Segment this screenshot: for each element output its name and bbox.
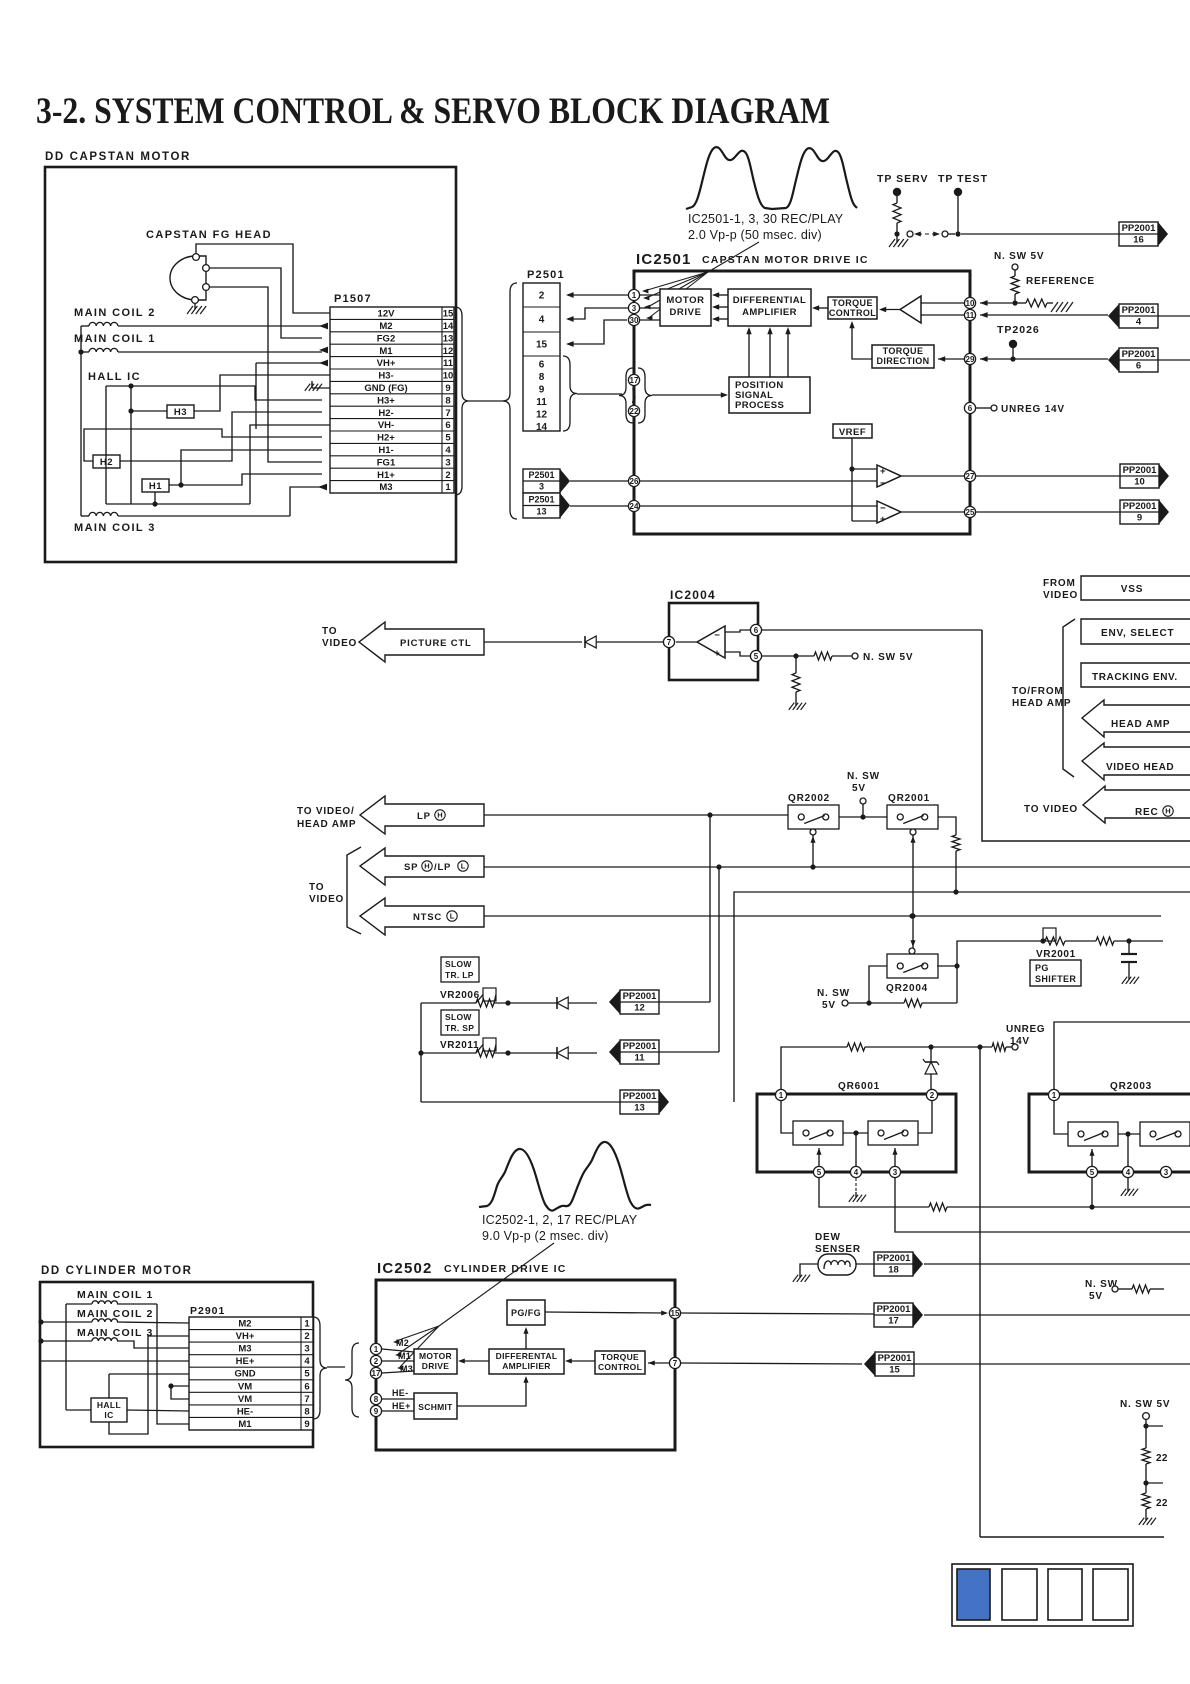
svg-text:13: 13 xyxy=(536,507,546,517)
HEAD AMP arrow stub xyxy=(1082,700,1190,737)
waveform 2 caption xyxy=(482,1213,638,1243)
MAIN COIL 1 label xyxy=(74,333,156,345)
svg-text:17: 17 xyxy=(372,1369,381,1378)
diode picture ctl xyxy=(585,636,596,648)
pin 6 IC2501 xyxy=(964,402,975,413)
pin 7 IC2502 xyxy=(648,1357,681,1368)
wire P2501-3 to pin26 xyxy=(570,480,628,482)
ground right of reference resistor xyxy=(1051,302,1073,312)
brace to/from head amp xyxy=(1063,619,1075,777)
REC arrow stub xyxy=(1083,786,1190,823)
svg-text:3-2. SYSTEM CONTROL & SERVO B: 3-2. SYSTEM CONTROL & SERVO BLOCK DIAGRA… xyxy=(36,91,830,132)
pin 5 IC2004 xyxy=(725,650,762,661)
svg-text:VR2001: VR2001 xyxy=(1036,949,1076,960)
svg-text:24: 24 xyxy=(630,502,639,511)
MAIN COIL 2 label cyl xyxy=(77,1308,154,1320)
wire pin3 net xyxy=(895,1178,1190,1232)
svg-text:H3+: H3+ xyxy=(377,395,395,406)
switch pack QR6001 body xyxy=(757,1094,956,1172)
brace right of P2901 xyxy=(313,1317,327,1419)
wire main coil 1 to M1 xyxy=(81,347,328,354)
svg-text:8: 8 xyxy=(445,395,450,406)
pin 17 IC2501 xyxy=(628,374,639,385)
svg-text:2: 2 xyxy=(304,1331,309,1342)
switch QR2003-B xyxy=(1140,1122,1190,1146)
svg-text:LP: LP xyxy=(417,811,431,822)
wire pin26 to comparator upper xyxy=(640,480,877,482)
wire comparator lower to PP2001-9 xyxy=(901,511,1120,513)
wire brace P2901 to brace IC2502 xyxy=(327,1366,345,1368)
brace right of P1507 xyxy=(455,307,469,495)
wire P2501-13 to pin24 xyxy=(570,505,628,507)
svg-text:1: 1 xyxy=(632,291,637,300)
resistor pin5 to ground xyxy=(792,656,800,700)
resistor REFERENCE xyxy=(1011,270,1095,306)
wire QR2004 right to PG shifter net xyxy=(937,941,1043,1003)
svg-text:PICTURE CTL: PICTURE CTL xyxy=(400,638,472,649)
svg-text:REC: REC xyxy=(1135,807,1159,818)
wire pin5 to N.SW 5V xyxy=(762,652,913,663)
svg-text:2: 2 xyxy=(930,1091,935,1100)
pin 17 IC2502 xyxy=(370,1367,414,1378)
PG/FG block xyxy=(507,1300,545,1325)
wire PP2001-12 up xyxy=(659,815,710,1002)
svg-text:TO: TO xyxy=(309,882,324,893)
svg-text:FG1: FG1 xyxy=(377,457,396,468)
svg-text:4: 4 xyxy=(1136,317,1142,328)
connector P2501-13 xyxy=(523,493,570,518)
svg-text:N. SW 5V: N. SW 5V xyxy=(1120,1399,1170,1410)
leader line waveform1 to pins xyxy=(642,242,759,320)
ground below pin4 QR2003 xyxy=(1121,1178,1138,1196)
N.SW 5V at QR2004 xyxy=(817,988,869,1011)
pin 11 IC2501 xyxy=(964,309,975,320)
pin 1 IC2502 xyxy=(370,1343,414,1354)
M2 M1 M3 labels xyxy=(396,1338,413,1374)
N.SW 5V divider source xyxy=(1120,1399,1170,1448)
wire diode to pin7 xyxy=(596,641,663,643)
wire PP2001-4 to pin11 xyxy=(980,312,1108,318)
svg-text:VIDEO HEAD: VIDEO HEAD xyxy=(1106,762,1174,773)
svg-text:SLOW: SLOW xyxy=(445,959,472,969)
svg-text:TO: TO xyxy=(322,626,337,637)
svg-text:SP: SP xyxy=(404,862,418,873)
wire main coil 2 to M2 xyxy=(81,323,328,330)
svg-text:CYLINDER DRIVE IC: CYLINDER DRIVE IC xyxy=(444,1263,567,1275)
connector PP2001-18 xyxy=(856,1252,1190,1276)
dashed link TP SERV to TP TEST xyxy=(907,231,955,237)
svg-text:12: 12 xyxy=(634,1003,645,1014)
main coil 2 cyl xyxy=(38,1319,189,1325)
connector PP2001-15 xyxy=(864,1352,1190,1376)
wire VR common to PP2001-13 xyxy=(418,1003,620,1102)
IC2004 op-amp xyxy=(697,626,725,659)
main coil 2 xyxy=(89,322,118,326)
svg-text:HE-: HE- xyxy=(392,1388,408,1398)
svg-text:REFERENCE: REFERENCE xyxy=(1026,276,1095,287)
motor drive block xyxy=(660,289,711,326)
VIDEO HEAD arrow stub xyxy=(1082,743,1190,780)
svg-text:3: 3 xyxy=(1164,1168,1169,1177)
capacitor PG shifter xyxy=(1121,941,1137,974)
ground below pin5 resistor xyxy=(789,700,806,710)
svg-text:H: H xyxy=(424,862,429,871)
svg-text:DD CAPSTAN MOTOR: DD CAPSTAN MOTOR xyxy=(45,151,191,163)
svg-text:VR2011: VR2011 xyxy=(440,1040,479,1051)
wire pin30 to P2501-15 xyxy=(566,320,627,347)
svg-text:TP TEST: TP TEST xyxy=(938,173,988,185)
svg-text:CAPSTAN MOTOR DRIVE IC: CAPSTAN MOTOR DRIVE IC xyxy=(702,254,869,266)
wire pins17-22 to position signal process xyxy=(652,392,728,397)
svg-text:15: 15 xyxy=(443,309,454,320)
IC2004 label xyxy=(670,588,716,602)
svg-text:H1+: H1+ xyxy=(377,470,395,481)
P2901 label xyxy=(190,1305,225,1317)
svg-text:14: 14 xyxy=(443,321,454,332)
HALL IC block xyxy=(91,1398,127,1422)
svg-text:PP2001: PP2001 xyxy=(1123,501,1158,512)
wire picture ctl to diode xyxy=(484,641,582,643)
title SYSTEM CONTROL & SERVO BLOCK DIAGRAM xyxy=(36,91,830,132)
svg-text:9: 9 xyxy=(374,1407,379,1416)
svg-text:−: − xyxy=(880,478,886,489)
svg-text:HALL: HALL xyxy=(97,1400,121,1410)
svg-text:12: 12 xyxy=(443,346,454,357)
hall element H2 xyxy=(93,455,120,468)
op-amp drive IC IC2501 body xyxy=(634,271,970,534)
ground at GND(FG) xyxy=(305,381,330,391)
svg-text:TRACKING ENV.: TRACKING ENV. xyxy=(1092,672,1178,683)
pin 1 IC2501 xyxy=(628,289,660,300)
connector PP2001-17 xyxy=(681,1303,1190,1327)
svg-text:IC2004: IC2004 xyxy=(670,588,716,602)
svg-text:VREF: VREF xyxy=(839,427,866,438)
wire VH- trunk xyxy=(250,425,330,504)
arrows position signal process to differential amplifier xyxy=(746,327,790,377)
svg-text:M3: M3 xyxy=(238,1344,251,1355)
DEW SENSER label xyxy=(815,1232,861,1255)
svg-text:5: 5 xyxy=(1090,1168,1095,1177)
svg-text:H1: H1 xyxy=(149,481,162,492)
svg-text:GND (FG): GND (FG) xyxy=(364,383,407,394)
svg-text:6: 6 xyxy=(754,626,759,635)
svg-text:CAPSTAN FG HEAD: CAPSTAN FG HEAD xyxy=(146,229,272,241)
svg-text:MAIN COIL 1: MAIN COIL 1 xyxy=(74,333,156,345)
svg-text:VIDEO: VIDEO xyxy=(322,638,357,649)
legend cell 1 highlighted xyxy=(957,1569,990,1620)
wire QR2003 pin1 net xyxy=(1054,1022,1190,1090)
ground below TP SERV xyxy=(889,236,908,247)
svg-text:IC2501: IC2501 xyxy=(636,251,692,268)
svg-text:H2+: H2+ xyxy=(377,433,395,444)
connector PP2001-9 xyxy=(1120,500,1169,524)
svg-text:HE-: HE- xyxy=(237,1406,253,1417)
wire pin2 to switch B xyxy=(918,1101,932,1133)
wire pin5 net xyxy=(819,1178,1190,1211)
svg-text:11: 11 xyxy=(634,1053,645,1064)
svg-text:P2501: P2501 xyxy=(527,269,565,281)
svg-text:DIRECTION: DIRECTION xyxy=(876,356,929,366)
svg-text:18: 18 xyxy=(888,1265,899,1276)
svg-text:+: + xyxy=(714,648,720,659)
svg-text:16: 16 xyxy=(1133,235,1144,246)
svg-text:CONTROL: CONTROL xyxy=(598,1362,642,1372)
svg-text:5V: 5V xyxy=(822,1000,836,1011)
test point TP2026 xyxy=(997,324,1040,362)
wire pins10-11 to buffer triangle xyxy=(921,303,964,315)
waveform IC2501 scope trace xyxy=(686,147,857,209)
IC2501 label xyxy=(636,251,869,268)
svg-text:VSS: VSS xyxy=(1121,584,1143,595)
torque direction block xyxy=(872,345,934,368)
wire HE+ row xyxy=(40,1360,189,1362)
svg-text:MAIN COIL 1: MAIN COIL 1 xyxy=(77,1289,154,1301)
connector PP2001-4 xyxy=(1108,304,1190,328)
arrow torque control to differential amplifier xyxy=(812,305,828,310)
ground below divider xyxy=(1139,1515,1156,1525)
svg-text:12V: 12V xyxy=(378,309,396,320)
svg-text:8: 8 xyxy=(539,372,545,383)
QR2002 bottom terminal xyxy=(810,829,816,867)
svg-text:GND: GND xyxy=(234,1369,255,1380)
svg-text:25: 25 xyxy=(966,508,975,517)
torque control block cyl xyxy=(595,1351,645,1374)
wire H2 to H2- xyxy=(120,409,339,461)
switch QR6001-A xyxy=(793,1121,843,1145)
coil star node wire xyxy=(78,326,83,516)
svg-text:22: 22 xyxy=(1156,1453,1168,1464)
svg-text:VH-: VH- xyxy=(378,420,394,431)
wire FG head pin3 to FG1 xyxy=(209,287,339,465)
CAPSTAN FG HEAD label xyxy=(146,229,272,241)
diode slow tr lp xyxy=(557,997,597,1009)
svg-text:11: 11 xyxy=(536,397,547,408)
HALL IC label xyxy=(88,371,141,383)
svg-text:TORQUE: TORQUE xyxy=(601,1352,639,1362)
TO VIDEO label modes xyxy=(309,882,344,905)
wire QR6001 top net xyxy=(781,1043,1018,1090)
pin 6 IC2004 xyxy=(725,624,762,635)
svg-text:NTSC: NTSC xyxy=(413,912,442,923)
IC2004 body xyxy=(669,603,758,680)
main coil 1 cyl xyxy=(66,1301,157,1304)
UNREG 14V source top xyxy=(1006,1024,1045,1047)
wire switch A to switch B xyxy=(843,1130,868,1135)
svg-text:+: + xyxy=(880,514,886,525)
svg-text:9: 9 xyxy=(539,385,545,396)
svg-text:QR6001: QR6001 xyxy=(838,1081,880,1092)
svg-text:DIFFERENTIAL: DIFFERENTIAL xyxy=(733,295,806,306)
pin 5 QR2003 xyxy=(1086,1149,1097,1178)
svg-text:9: 9 xyxy=(445,383,450,394)
SLOW TR.LP block xyxy=(441,957,479,982)
VR2001 label xyxy=(1036,949,1076,960)
svg-text:7: 7 xyxy=(445,408,450,419)
FROM VIDEO label xyxy=(1043,578,1078,601)
pin 4 QR6001 xyxy=(850,1133,861,1178)
svg-text:VM: VM xyxy=(238,1394,252,1405)
QR2001 bottom terminal xyxy=(910,829,916,948)
wire coil1 to M1 xyxy=(157,1304,189,1424)
svg-text:6: 6 xyxy=(539,360,545,371)
pin 10 IC2501 xyxy=(964,297,975,308)
svg-text:PP2001: PP2001 xyxy=(1123,465,1158,476)
motor drive block cyl xyxy=(414,1349,457,1374)
svg-text:17: 17 xyxy=(888,1316,899,1327)
svg-text:MAIN COIL 3: MAIN COIL 3 xyxy=(74,522,156,534)
legend frame xyxy=(952,1564,1133,1626)
svg-text:1: 1 xyxy=(374,1345,379,1354)
wire main coil 3 to M3 xyxy=(81,484,327,516)
svg-text:DRIVE: DRIVE xyxy=(669,307,701,318)
wire pin24 to comparator lower xyxy=(640,505,877,507)
svg-text:HE+: HE+ xyxy=(392,1401,411,1411)
svg-text:HE+: HE+ xyxy=(236,1356,255,1367)
wire H1 to H1- xyxy=(181,447,339,485)
switch QR2004 xyxy=(886,954,938,994)
svg-text:26: 26 xyxy=(630,477,639,486)
ground below capacitor xyxy=(1122,974,1139,984)
switch QR6001-B xyxy=(868,1121,918,1145)
wire NTSC net xyxy=(484,913,1161,918)
svg-text:6: 6 xyxy=(968,404,973,413)
svg-text:M2: M2 xyxy=(238,1318,251,1329)
svg-text:SHIFTER: SHIFTER xyxy=(1035,974,1076,984)
svg-text:IC2502-1, 2, 17 REC/PLAY: IC2502-1, 2, 17 REC/PLAY xyxy=(482,1213,638,1227)
connector P2501 xyxy=(523,283,560,433)
svg-text:IC: IC xyxy=(104,1410,113,1420)
svg-text:6: 6 xyxy=(445,420,450,431)
svg-text:IC2502: IC2502 xyxy=(377,1260,433,1277)
svg-text:H1-: H1- xyxy=(378,445,393,456)
wire pin29 to torque direction xyxy=(938,356,964,361)
wire hall bottom bus xyxy=(106,386,250,507)
svg-text:4: 4 xyxy=(304,1356,310,1367)
pin 22 IC2501 xyxy=(628,405,639,416)
switch pack QR2003 body xyxy=(1029,1094,1190,1172)
wire QR2004 left loop xyxy=(866,966,887,1006)
svg-text:+: + xyxy=(880,466,886,477)
svg-text:QR2004: QR2004 xyxy=(886,983,928,994)
svg-text:H3: H3 xyxy=(174,407,187,418)
pin 3 QR6001 xyxy=(889,1148,900,1178)
brace pair around pins 17 22 xyxy=(619,368,652,423)
comparator upper xyxy=(877,465,901,489)
PICTURE CTL arrow xyxy=(359,622,484,662)
main coil 3 xyxy=(89,512,118,516)
svg-text:30: 30 xyxy=(630,316,639,325)
svg-text:22: 22 xyxy=(630,407,639,416)
svg-text:M2: M2 xyxy=(379,321,392,332)
MAIN COIL 3 label cyl xyxy=(77,1327,154,1339)
svg-text:1: 1 xyxy=(445,482,451,493)
TRACKING ENV box stub xyxy=(1081,663,1190,687)
svg-text:17: 17 xyxy=(630,376,639,385)
svg-text:7: 7 xyxy=(667,638,672,647)
wire PP13 net horizontal xyxy=(734,892,1190,1102)
wire torque direction to torque control xyxy=(849,321,872,359)
IC2502 label xyxy=(377,1260,567,1277)
svg-text:N. SW 5V: N. SW 5V xyxy=(863,652,913,663)
DD CYLINDER MOTOR label xyxy=(41,1265,193,1277)
wire pin7 to PP2001-15 xyxy=(681,1363,862,1364)
svg-text:22: 22 xyxy=(1156,1498,1168,1509)
svg-text:P2901: P2901 xyxy=(190,1305,225,1317)
wire pin3 to P2501-4 xyxy=(566,308,628,322)
svg-text:FROM: FROM xyxy=(1043,578,1076,589)
svg-text:TO/FROM: TO/FROM xyxy=(1012,686,1064,697)
pin 1 QR6001 xyxy=(775,1089,786,1100)
connector P1507 xyxy=(330,307,454,493)
pin 5 QR6001 xyxy=(813,1148,824,1178)
svg-text:TR. LP: TR. LP xyxy=(445,970,474,980)
LP arrow xyxy=(360,796,484,834)
svg-text:IC2501-1, 3, 30 REC/PLAY: IC2501-1, 3, 30 REC/PLAY xyxy=(688,212,844,226)
wire LP net xyxy=(484,812,788,817)
svg-text:4: 4 xyxy=(1126,1168,1131,1177)
legend cell 4 xyxy=(1093,1569,1128,1620)
QR2004 top terminal xyxy=(909,948,915,954)
svg-text:1: 1 xyxy=(1052,1091,1057,1100)
squiggle between pin17 and pin22 xyxy=(633,386,636,405)
svg-text:14: 14 xyxy=(536,422,548,433)
connector P2501-3 xyxy=(523,469,570,493)
svg-text:TORQUE: TORQUE xyxy=(832,298,873,308)
svg-text:UNREG 14V: UNREG 14V xyxy=(1001,404,1065,415)
svg-text:H3-: H3- xyxy=(378,371,393,382)
zener diode QR6001 xyxy=(923,1047,939,1090)
connector PP2001-13 xyxy=(620,1090,669,1114)
svg-text:VH+: VH+ xyxy=(377,358,396,369)
TO VIDEO label picture ctl xyxy=(322,626,357,649)
ENV SELECT box stub xyxy=(1081,619,1190,644)
svg-text:UNREG: UNREG xyxy=(1006,1024,1045,1035)
wire FG head pin1 to 12V xyxy=(196,244,330,313)
svg-text:−: − xyxy=(880,503,886,514)
arrows differential amplifier to motor drive xyxy=(712,292,728,321)
NTSC arrow xyxy=(360,898,484,935)
svg-text:QR2001: QR2001 xyxy=(888,793,930,804)
waveform 1 caption xyxy=(688,212,844,242)
N.SW 5V between switches xyxy=(847,771,880,820)
svg-text:PP2001: PP2001 xyxy=(878,1353,913,1364)
legend cell 3 xyxy=(1048,1569,1082,1620)
svg-text:HEAD AMP: HEAD AMP xyxy=(1111,719,1170,730)
svg-text:3: 3 xyxy=(445,457,450,468)
svg-text:TP SERV: TP SERV xyxy=(877,173,929,185)
svg-text:ENV, SELECT: ENV, SELECT xyxy=(1101,628,1174,639)
pin 9 IC2502 xyxy=(370,1405,414,1416)
svg-text:29: 29 xyxy=(966,355,975,364)
differential amplifier block cyl xyxy=(489,1349,564,1374)
brace right of P2501 group xyxy=(563,356,577,431)
svg-text:M3: M3 xyxy=(379,482,392,493)
pin 2 IC2502 xyxy=(370,1355,414,1366)
brace left of P2501 xyxy=(503,283,517,519)
svg-text:SCHMIT: SCHMIT xyxy=(418,1402,453,1412)
svg-text:N. SW 5V: N. SW 5V xyxy=(994,251,1044,262)
svg-text:VIDEO: VIDEO xyxy=(1043,590,1078,601)
resistor PG shifter net xyxy=(1065,937,1163,945)
N.SW 5V mid right xyxy=(1085,1279,1164,1302)
MAIN COIL 3 label xyxy=(74,522,156,534)
connector PP2001-16 xyxy=(1119,222,1168,246)
arrow diff to motor cyl xyxy=(458,1358,489,1363)
wire reference node to pin10 xyxy=(980,300,1015,306)
wire H3 to H3- xyxy=(194,375,330,411)
leader line waveform2 to pins xyxy=(393,1243,554,1370)
torque control block xyxy=(828,297,877,319)
